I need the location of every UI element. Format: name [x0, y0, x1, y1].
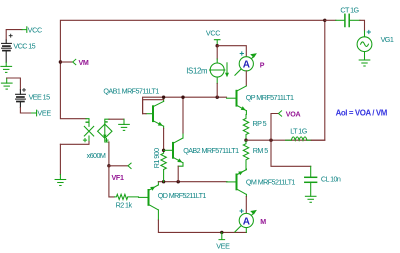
- resistor R1: [161, 149, 166, 182]
- inductor LT 1G: [286, 137, 312, 140]
- wire QD emitter to VEE rail: [158, 220, 246, 232]
- svg-text:RM 5: RM 5: [253, 146, 268, 155]
- transistor QM MRF5211LT1: [227, 169, 247, 197]
- capacitor CL 10n: [305, 166, 317, 196]
- node VCC terminal top: [214, 40, 220, 46]
- node VEE terminal bottom: [219, 232, 225, 239]
- ground below X input: [55, 175, 66, 186]
- wire X input to ground: [59, 144, 61, 174]
- current source IS12m: [210, 59, 228, 84]
- wire ammeter M bottom: [245, 228, 247, 233]
- junction VOA tap: [269, 139, 272, 142]
- svg-text:QP MRF5711LT1: QP MRF5711LT1: [246, 93, 294, 102]
- source VG1 plus mark: [367, 30, 370, 33]
- svg-text:M: M: [260, 218, 266, 226]
- wire QAB2 emitter down: [177, 166, 179, 182]
- transistor QAB2 MRF5711LT1: [164, 133, 183, 166]
- transistor QP arrow: [241, 106, 246, 110]
- wire upper rail: [143, 97, 227, 114]
- ammeter P needle arrow: [235, 56, 254, 75]
- ammeter P circle: [239, 57, 253, 71]
- svg-text:VM: VM: [79, 59, 89, 67]
- battery V1 plus mark: [9, 34, 12, 37]
- svg-text:P: P: [260, 61, 265, 69]
- junction QAB2 collector: [181, 96, 184, 99]
- battery V2 VEE 15: [16, 90, 26, 108]
- junction QAB1 collector: [162, 96, 165, 99]
- resistor R2: [115, 194, 139, 199]
- junction VCC top: [216, 44, 219, 47]
- wire VOA to CL: [271, 140, 311, 166]
- controlled source X output diamond: [98, 124, 112, 138]
- svg-text:VCC 15: VCC 15: [13, 41, 35, 50]
- svg-text:VCC: VCC: [206, 29, 220, 38]
- wire VCC to IS12m: [216, 46, 218, 59]
- ammeter M needle arrow: [235, 213, 254, 232]
- controlled source X input plus mark: [83, 139, 86, 142]
- svg-text:VCC: VCC: [28, 25, 42, 34]
- wire diamond top to ground: [109, 118, 124, 120]
- wire VCC to ammeter P: [217, 46, 246, 57]
- node VM hook: [73, 59, 76, 64]
- junction QAB2 emitter: [177, 180, 180, 183]
- svg-text:VOA: VOA: [286, 111, 301, 119]
- transistor QAB1 arrow: [158, 122, 163, 126]
- svg-text:VEE: VEE: [37, 109, 51, 118]
- transistor QD arrow: [150, 187, 155, 191]
- controlled source X output top pin to ground: [105, 119, 109, 124]
- wire QAB2 collector up: [182, 97, 184, 133]
- junction QAB2 base: [162, 149, 165, 152]
- wire LT to right vertical: [311, 20, 325, 140]
- ammeter M plus mark: [240, 209, 243, 212]
- transistor QAB1 MRF5711LT1: [146, 97, 164, 126]
- junction VM tap: [59, 60, 62, 63]
- battery V2 plus mark: [23, 88, 26, 91]
- svg-text:VEE 15: VEE 15: [29, 93, 50, 102]
- wire VOA rail: [246, 139, 325, 141]
- junction CT tap: [323, 19, 326, 22]
- ammeter M needle head: [250, 210, 257, 215]
- svg-text:VF1: VF1: [112, 174, 124, 182]
- ammeter P plus mark: [240, 52, 243, 55]
- svg-text:RP 5: RP 5: [253, 119, 267, 128]
- ground below V1: [1, 62, 12, 72]
- svg-text:A: A: [243, 216, 250, 227]
- wire CT to VG1: [360, 20, 365, 31]
- current source IS12m arrowhead: [225, 73, 229, 78]
- svg-text:Aol = VOA / VM: Aol = VOA / VM: [336, 108, 388, 117]
- wire left vertical lower: [60, 62, 86, 119]
- wire VM stub: [60, 61, 72, 63]
- svg-text:QAB2 MRF5711LT1: QAB2 MRF5711LT1: [183, 146, 239, 155]
- junction VEE tap: [220, 231, 223, 234]
- resistor RP5: [243, 115, 248, 141]
- svg-text:CL 10n: CL 10n: [321, 174, 341, 183]
- svg-text:R2 1k: R2 1k: [116, 200, 133, 209]
- wire QM to ammeter M: [245, 197, 247, 214]
- transistor QP MRF5711LT1: [227, 86, 247, 115]
- battery V1 VCC wire to terminal: [6, 30, 22, 40]
- controlled source X output top mark: [105, 121, 107, 123]
- svg-text:x600M: x600M: [87, 151, 106, 160]
- ammeter P needle head: [250, 53, 257, 58]
- ground below CL: [305, 196, 316, 202]
- node VOA hook: [279, 111, 282, 116]
- wire QAB1 base collector tie: [143, 100, 164, 114]
- wire R1 top to QAB1 emitter: [163, 126, 165, 128]
- svg-text:VG1: VG1: [381, 35, 394, 44]
- node VF1 hook: [128, 163, 131, 168]
- node VCC terminal tick: [22, 27, 27, 33]
- ammeter M circle: [239, 213, 253, 227]
- wire middle rail: [158, 181, 227, 183]
- svg-text:R1 900: R1 900: [152, 148, 161, 168]
- wire diamond output down to VF1 node: [108, 142, 110, 166]
- svg-text:QAB1 MRF5711LT1: QAB1 MRF5711LT1: [103, 86, 159, 95]
- svg-text:CT 1G: CT 1G: [340, 6, 359, 15]
- transistor QAB2 arrow: [177, 158, 182, 162]
- svg-text:VEE: VEE: [216, 242, 230, 251]
- ground below VG1: [359, 60, 370, 66]
- junction R1 bottom: [162, 180, 165, 183]
- node VEE terminal tick: [32, 110, 37, 116]
- wire VOA stub: [271, 114, 278, 141]
- transistor QD MRF5211LT1: [139, 182, 159, 220]
- svg-text:A: A: [243, 60, 250, 71]
- controlled source X output plus mark: [105, 139, 108, 142]
- capacitor CT 1G: [336, 14, 360, 26]
- wire ground to battery V2: [7, 78, 21, 90]
- ground right of diamond: [119, 119, 130, 130]
- junction RP RM: [244, 139, 247, 142]
- transistor QM arrow: [238, 171, 243, 175]
- svg-text:QM MRF5211LT1: QM MRF5211LT1: [246, 177, 295, 186]
- wire ammeter P to QP: [245, 71, 247, 85]
- wire battery V2 to VEE terminal: [20, 108, 31, 114]
- junction VF1 tap: [107, 164, 110, 167]
- wire VF1 down to R2: [109, 166, 115, 197]
- svg-text:IS12m: IS12m: [186, 67, 207, 76]
- battery V1 VCC 15: [2, 40, 12, 62]
- resistor RM5: [243, 140, 248, 169]
- wire VF1 stub: [109, 165, 128, 167]
- controlled source X input X symbol: [60, 119, 93, 145]
- wire IS12m bottom: [216, 84, 218, 98]
- ground above battery V2: [1, 78, 12, 89]
- svg-text:QD MRF5211LT1: QD MRF5211LT1: [158, 191, 207, 200]
- junction IS bottom: [216, 96, 219, 99]
- controlled source X input top mark: [86, 121, 88, 123]
- controlled source X output bottom pin: [105, 138, 109, 142]
- wire CT left stub: [325, 19, 336, 21]
- svg-text:LT 1G: LT 1G: [290, 127, 307, 136]
- wire top rail: [60, 20, 324, 62]
- sine source VG1: [357, 31, 372, 60]
